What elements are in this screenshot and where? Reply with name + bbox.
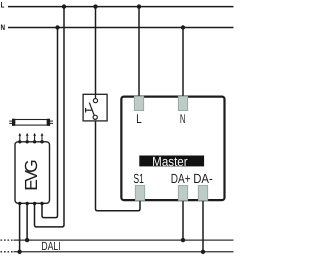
svg-text:N: N bbox=[1, 23, 6, 32]
svg-text:DALI: DALI bbox=[41, 239, 60, 253]
svg-text:DA-: DA- bbox=[193, 171, 213, 186]
svg-text:L: L bbox=[1, 1, 5, 10]
svg-text:Master: Master bbox=[152, 154, 188, 169]
svg-text:DA+: DA+ bbox=[171, 171, 191, 186]
svg-text:EVG: EVG bbox=[21, 159, 41, 191]
svg-text:L: L bbox=[136, 111, 142, 126]
svg-text:S1: S1 bbox=[133, 171, 143, 186]
svg-text:N: N bbox=[180, 111, 186, 126]
